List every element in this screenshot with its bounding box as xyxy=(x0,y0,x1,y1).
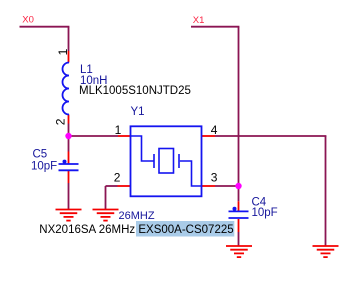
svg-text:Y1: Y1 xyxy=(131,106,145,118)
svg-text:1: 1 xyxy=(115,123,122,137)
svg-text:10pF: 10pF xyxy=(252,207,278,219)
svg-text:10pF: 10pF xyxy=(31,160,57,172)
svg-text:1: 1 xyxy=(56,48,70,55)
svg-text:MLK1005S10NJTD25: MLK1005S10NJTD25 xyxy=(79,85,191,97)
svg-text:2: 2 xyxy=(114,170,121,184)
svg-text:3: 3 xyxy=(211,170,218,184)
svg-text:L1: L1 xyxy=(80,64,93,76)
svg-text:X1: X1 xyxy=(193,15,205,26)
svg-text:NX2016SA 26MHz EXS00A-CS07225: NX2016SA 26MHz EXS00A-CS07225 xyxy=(39,224,233,236)
svg-text:X0: X0 xyxy=(22,15,34,26)
svg-text:26MHZ: 26MHZ xyxy=(119,210,155,222)
svg-text:2: 2 xyxy=(54,118,68,125)
svg-text:4: 4 xyxy=(211,123,218,137)
svg-text:C5: C5 xyxy=(33,148,48,160)
